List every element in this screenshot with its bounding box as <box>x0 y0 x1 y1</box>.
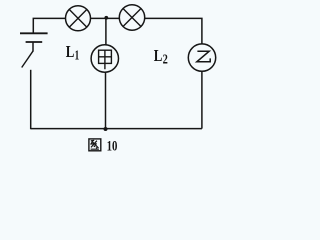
label L1 <box>66 42 80 63</box>
wire meter Jia to bottom junction <box>105 72 107 128</box>
battery BT positive plate (long) <box>20 32 48 34</box>
wire meter Yi to bottom rail <box>201 71 203 128</box>
wire lamp L1 to lamp L2 <box>91 17 120 19</box>
svg-text:2: 2 <box>163 52 168 67</box>
svg-text:1: 1 <box>75 48 80 63</box>
caption: character 图 (figure) <box>89 139 101 151</box>
label L2 <box>154 46 168 67</box>
svg-text:10: 10 <box>107 139 118 155</box>
meter Jia (round meter, character 甲) <box>91 45 118 72</box>
svg-text:L: L <box>154 46 163 65</box>
junction node B (bottom) <box>104 127 108 131</box>
wire battery positive up to top rail and right to lamp L1 <box>33 18 65 33</box>
switch S blade (open) <box>22 51 33 67</box>
svg-text:L: L <box>66 42 75 61</box>
wire switch to bottom-left corner <box>30 70 32 129</box>
wire battery negative to switch <box>32 42 34 52</box>
wire branch from node A down to meter Jia <box>105 18 107 45</box>
lamp L2 <box>119 5 144 30</box>
junction node A (top) <box>104 16 108 20</box>
wire lamp L2 right and down to meter Yi <box>145 18 202 44</box>
meter Yi (round meter, character 乙) <box>188 44 215 71</box>
wire bottom rail <box>31 128 202 130</box>
battery BT negative plate (short) <box>26 41 43 43</box>
lamp L1 <box>66 6 91 31</box>
